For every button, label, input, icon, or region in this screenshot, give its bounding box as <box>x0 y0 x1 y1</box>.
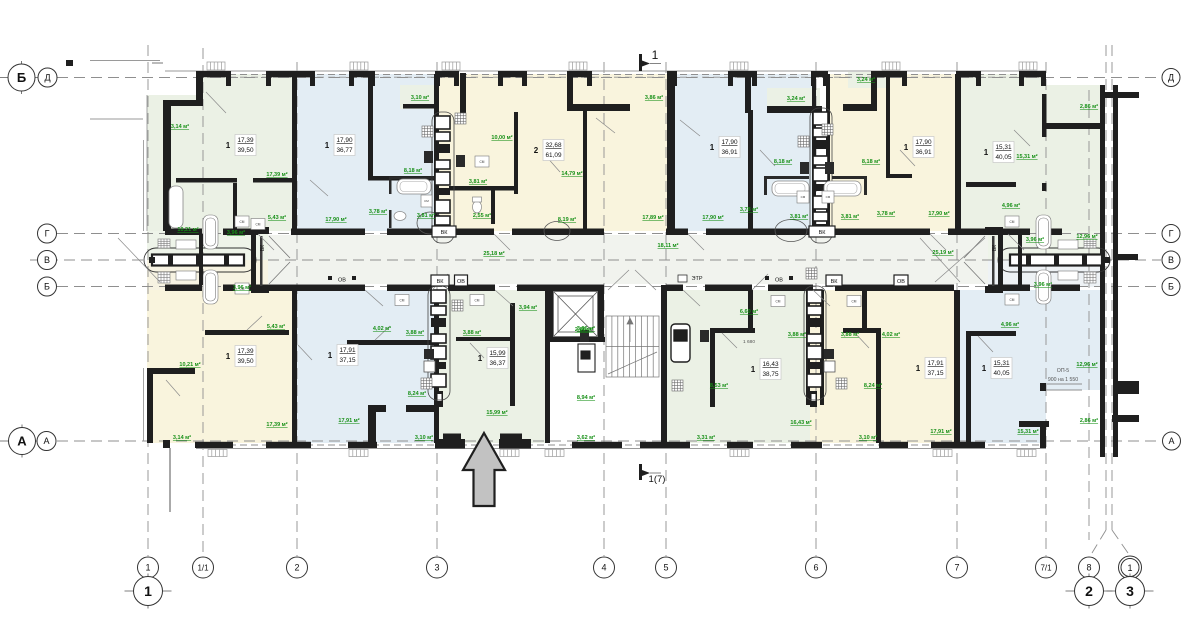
apartment B5 room fill (cream) <box>810 290 954 443</box>
svg-text:17,89 м²: 17,89 м² <box>642 214 663 221</box>
svg-text:40,05: 40,05 <box>994 370 1010 377</box>
svg-text:3,81 м²: 3,81 м² <box>417 212 435 219</box>
svg-text:В: В <box>1168 255 1174 265</box>
svg-text:8,18 м²: 8,18 м² <box>774 158 792 165</box>
svg-text:2: 2 <box>534 146 539 155</box>
svg-text:СМ: СМ <box>801 195 806 199</box>
green area labels <box>171 76 1098 441</box>
svg-text:ВК: ВК <box>260 245 266 251</box>
svg-text:3,88 м²: 3,88 м² <box>463 329 481 336</box>
svg-text:6: 6 <box>813 563 818 573</box>
section marker 1 (top) <box>639 48 661 71</box>
door swings <box>166 92 1030 396</box>
CM boxes A4/A5 <box>797 191 809 203</box>
axis circle 4 <box>594 557 615 578</box>
axis А bold bottom-left <box>0 425 45 458</box>
svg-text:1: 1 <box>710 143 715 152</box>
wall B1/B2 <box>292 290 297 443</box>
svg-text:37,15: 37,15 <box>340 357 356 364</box>
svg-text:Д: Д <box>44 73 50 83</box>
svg-text:ВК: ВК <box>441 230 449 236</box>
svg-text:17,90: 17,90 <box>722 139 738 146</box>
A3 kitchen corner wall <box>460 73 466 117</box>
annex flange low2 <box>1112 415 1139 422</box>
B3 inner bottom wall left <box>443 434 461 441</box>
B3 inner bottom wall right <box>500 434 522 441</box>
right core partition wall <box>1018 234 1022 285</box>
toilet A3 <box>473 201 482 213</box>
svg-text:3,78 м²: 3,78 м² <box>740 206 758 213</box>
bathtub A4 <box>772 181 809 196</box>
door oval corridor right <box>417 212 443 234</box>
svg-text:17,90 м²: 17,90 м² <box>325 216 346 223</box>
utility stack S3 <box>428 286 450 400</box>
svg-text:1: 1 <box>751 365 756 374</box>
A6 interior horizontal wall <box>966 182 1016 187</box>
bathtub A5 <box>824 181 861 196</box>
right core upper fill <box>988 231 1100 260</box>
washing machine B2 <box>424 349 434 359</box>
utility shaft wall bottom (axis 6) <box>806 290 810 405</box>
wall B5 interior vertical <box>876 330 881 443</box>
svg-text:16,43: 16,43 <box>763 361 779 368</box>
axis В right <box>1162 251 1180 269</box>
apartment B4 room fill (green) <box>667 290 810 443</box>
axis circle 7/1 <box>1036 557 1057 578</box>
apartment B1 label <box>226 346 256 367</box>
A3 bath wall vertical <box>491 186 495 224</box>
svg-text:17,39: 17,39 <box>238 348 254 355</box>
dark appliance blocks <box>424 151 433 163</box>
balcony 3,10 fill (green) <box>400 85 434 109</box>
svg-text:СМ: СМ <box>852 300 857 304</box>
apartment A2 room fill (blue) <box>292 74 434 231</box>
axis А left small <box>37 432 56 451</box>
svg-text:8,24 м²: 8,24 м² <box>864 382 882 389</box>
stove hatches <box>421 113 847 391</box>
annex flange top <box>1100 92 1139 98</box>
axis circle 1 <box>138 557 159 578</box>
utility shaft wall right (axis 6 top) <box>826 74 830 234</box>
svg-text:61,09: 61,09 <box>546 152 562 159</box>
svg-text:10,21 м²: 10,21 м² <box>177 226 198 233</box>
svg-text:СМ: СМ <box>475 299 480 303</box>
svg-text:10,21 м²: 10,21 м² <box>179 361 200 368</box>
svg-text:СМ: СМ <box>424 199 429 203</box>
svg-text:1: 1 <box>904 143 909 152</box>
svg-text:СМ: СМ <box>1010 298 1015 302</box>
wall V13 between A5 and A6 <box>955 74 961 234</box>
svg-text:15,31 м²: 15,31 м² <box>1017 428 1038 435</box>
svg-text:3,10 м²: 3,10 м² <box>411 94 429 101</box>
svg-text:ОП-5: ОП-5 <box>1057 368 1069 374</box>
apartment A3 room fill (cream) <box>434 74 674 231</box>
svg-text:3,62 м²: 3,62 м² <box>577 434 595 441</box>
svg-text:17,91 м²: 17,91 м² <box>338 417 359 424</box>
svg-text:ОВ: ОВ <box>457 279 465 285</box>
svg-text:6,60 м²: 6,60 м² <box>740 308 758 315</box>
door symbol B4 entry <box>810 391 817 407</box>
svg-text:1: 1 <box>328 351 333 360</box>
svg-text:36,77: 36,77 <box>337 147 353 154</box>
apartment B5 label <box>916 358 946 379</box>
apartment A2 label <box>325 135 355 156</box>
svg-text:4,02 м²: 4,02 м² <box>373 325 391 332</box>
svg-text:17,91 м²: 17,91 м² <box>930 428 951 435</box>
svg-text:СМ: СМ <box>1010 220 1015 224</box>
svg-text:1: 1 <box>144 583 152 599</box>
svg-text:39,50: 39,50 <box>238 147 254 154</box>
svg-text:3,81 м²: 3,81 м² <box>790 213 808 220</box>
apartment B3 label <box>478 348 508 369</box>
svg-text:10,00 м²: 10,00 м² <box>491 134 512 141</box>
svg-text:1: 1 <box>145 563 150 573</box>
corridor right end door swings <box>920 238 960 282</box>
bath walls A4/A5 <box>764 176 809 179</box>
stair hall door swings <box>608 270 629 290</box>
B4 bath wall <box>748 290 753 333</box>
svg-text:3,88 м²: 3,88 м² <box>788 331 806 338</box>
svg-text:ВК: ВК <box>437 279 445 285</box>
svg-text:2,55 м²: 2,55 м² <box>473 212 491 219</box>
bold axis circle 1 bottom <box>125 574 172 609</box>
wall B5/B6 <box>954 290 960 443</box>
wall B1 left L horizontal <box>147 368 195 374</box>
svg-text:1: 1 <box>226 352 231 361</box>
svg-text:3,10 м²: 3,10 м² <box>415 434 433 441</box>
utility stack S1 <box>432 112 454 243</box>
svg-text:3,88 м²: 3,88 м² <box>841 331 859 338</box>
svg-text:1 680: 1 680 <box>743 339 755 345</box>
apartment A4 label <box>710 137 740 158</box>
corridor bottom wall <box>165 285 1080 292</box>
axis dashed lines <box>30 45 1162 556</box>
apartment A6 room fill (green) <box>955 74 1046 231</box>
svg-text:Д: Д <box>1168 73 1174 83</box>
svg-text:1: 1 <box>478 354 483 363</box>
axis circle 2 <box>287 557 308 578</box>
apartment A5 room fill (cream) <box>828 74 955 231</box>
annex flange mid <box>1118 254 1138 260</box>
A1 bath wall <box>233 183 237 231</box>
door oval corridor <box>544 222 570 241</box>
svg-text:17,39 м²: 17,39 м² <box>266 421 287 428</box>
door oval near VK left <box>775 220 807 242</box>
svg-text:12,96 м²: 12,96 м² <box>1076 233 1097 240</box>
apartment B3 room fill (green) <box>434 290 545 443</box>
svg-text:15,31: 15,31 <box>994 360 1010 367</box>
svg-text:ОВ: ОВ <box>775 278 783 284</box>
svg-text:СМ: СМ <box>240 220 245 224</box>
bold axis circle 3 bottom <box>1107 574 1154 609</box>
svg-text:17,39: 17,39 <box>238 137 254 144</box>
wall B6 interior vertical <box>966 333 971 443</box>
svg-text:3,88 м²: 3,88 м² <box>406 329 424 336</box>
svg-text:А: А <box>43 436 49 446</box>
svg-text:2,86 м²: 2,86 м² <box>1080 103 1098 110</box>
CM boxes left <box>235 216 249 294</box>
facade thin lines <box>90 61 1046 449</box>
apartment B1 room fill (cream) <box>147 290 292 443</box>
svg-text:3,31 м²: 3,31 м² <box>697 434 715 441</box>
svg-text:1: 1 <box>325 141 330 150</box>
wall B6 bottom-right step <box>1019 421 1049 427</box>
wall right of balcony 2,86 <box>1042 94 1047 137</box>
svg-text:7: 7 <box>954 563 959 573</box>
corridor CM boxes <box>395 295 409 306</box>
svg-text:7/1: 7/1 <box>1040 563 1052 572</box>
svg-text:16,43 м²: 16,43 м² <box>790 419 811 426</box>
left vestibule door swings <box>269 236 290 258</box>
svg-text:1: 1 <box>1127 563 1132 573</box>
annex flange low1 <box>1118 381 1139 394</box>
svg-text:Б: Б <box>17 70 26 85</box>
axis А right <box>1163 432 1181 450</box>
axis circle 3 <box>427 557 448 578</box>
wall A4 bath <box>748 110 753 234</box>
svg-text:3,78 м²: 3,78 м² <box>369 208 387 215</box>
porch wall right of arrow <box>499 439 531 449</box>
apartment B2 label <box>328 345 358 366</box>
svg-text:5: 5 <box>663 563 668 573</box>
facade window dashes <box>196 75 1046 446</box>
svg-text:ОВ: ОВ <box>897 279 905 285</box>
right wing loggia wall <box>1046 123 1100 129</box>
apartment A3 label <box>534 140 564 161</box>
svg-text:Б: Б <box>1168 282 1174 292</box>
wall B4 interior horizontal <box>710 328 755 333</box>
svg-text:1: 1 <box>226 141 231 150</box>
axis Б bold top-left <box>0 61 44 94</box>
svg-text:3,96 м²: 3,96 м² <box>233 284 251 291</box>
svg-text:900 на 1 550: 900 на 1 550 <box>1048 377 1078 383</box>
apartment B6 room fill (blue) <box>954 290 1100 443</box>
svg-text:ОВ: ОВ <box>338 278 346 284</box>
svg-text:17,90 м²: 17,90 м² <box>928 210 949 217</box>
svg-text:Г: Г <box>45 229 50 239</box>
svg-text:37,15: 37,15 <box>928 370 944 377</box>
svg-text:15,99 м²: 15,99 м² <box>486 409 507 416</box>
right vestibule door swings <box>964 236 985 258</box>
sink A2 <box>394 212 406 221</box>
right core fixtures <box>1036 215 1096 304</box>
svg-text:17,90: 17,90 <box>916 139 932 146</box>
axis Б right <box>1162 278 1180 296</box>
svg-text:ВК: ВК <box>831 279 839 285</box>
svg-text:4,96 м²: 4,96 м² <box>1002 202 1020 209</box>
svg-text:8,94 м²: 8,94 м² <box>577 394 595 401</box>
svg-text:1: 1 <box>982 364 987 373</box>
svg-text:3,14 м²: 3,14 м² <box>173 434 191 441</box>
svg-text:3,96 м²: 3,96 м² <box>1026 236 1044 243</box>
wall B6 interior horizontal <box>966 331 1016 336</box>
svg-text:2,86 м²: 2,86 м² <box>575 326 593 333</box>
wall B2 interior <box>347 340 434 345</box>
svg-text:17,91: 17,91 <box>928 360 944 367</box>
annex wall right <box>1113 85 1118 457</box>
kitchen unit near stairs left <box>578 344 595 372</box>
left core capsule <box>144 248 256 272</box>
svg-text:Г: Г <box>1169 229 1174 239</box>
svg-text:1: 1 <box>984 148 989 157</box>
svg-text:38,75: 38,75 <box>763 371 779 378</box>
axis circle 5 <box>656 557 677 578</box>
svg-text:А: А <box>17 434 27 449</box>
corner wall A4 right <box>745 71 751 113</box>
axis Д left <box>38 68 57 87</box>
apartment A1 label <box>226 135 256 156</box>
svg-text:ЭТР: ЭТР <box>692 276 703 282</box>
left exterior wall <box>163 100 171 231</box>
svg-text:18,11 м²: 18,11 м² <box>658 242 679 249</box>
svg-text:3,96 м²: 3,96 м² <box>227 229 245 236</box>
left core partition wall <box>199 234 203 285</box>
wall V8 between A3 and A4 <box>667 71 675 234</box>
apartment A6 label <box>984 142 1014 163</box>
svg-text:3,14 м²: 3,14 м² <box>171 123 189 130</box>
svg-text:17,90: 17,90 <box>337 137 353 144</box>
loggia bottom wall A3 <box>567 104 630 111</box>
axis Б left <box>38 277 57 296</box>
elevator shaft <box>554 292 598 337</box>
B5 bath wall <box>862 290 867 333</box>
wall B1 left L vertical <box>147 368 153 443</box>
svg-text:СМ: СМ <box>400 299 405 303</box>
A3 bath wall horizontal <box>449 186 514 191</box>
svg-text:В: В <box>44 255 50 265</box>
wall B4 interior vertical <box>710 330 715 407</box>
apartment A5 label <box>904 137 934 158</box>
svg-text:2: 2 <box>294 563 299 573</box>
svg-text:12,96 м²: 12,96 м² <box>1076 361 1097 368</box>
stairs <box>606 316 659 377</box>
axis Д right <box>1162 69 1180 87</box>
svg-text:3,96 м²: 3,96 м² <box>1034 281 1052 288</box>
wall V4 between A2 and A3 <box>434 74 439 234</box>
svg-text:СМ: СМ <box>826 195 831 199</box>
svg-text:3: 3 <box>1126 583 1134 599</box>
wall B2/B3 <box>434 290 439 443</box>
corner wall A5 <box>871 71 877 111</box>
apartment A4 room fill (blue) <box>674 74 812 231</box>
left core fixtures <box>158 215 218 304</box>
balcony 3,10 bottom wall <box>403 104 435 109</box>
annex wall left <box>1100 85 1105 457</box>
door symbol B3 entry <box>436 391 443 407</box>
stairwell left wall <box>545 285 550 443</box>
svg-text:3,24 м²: 3,24 м² <box>857 76 875 83</box>
stairwell right wall <box>661 285 667 443</box>
misc small marks <box>66 60 73 66</box>
A5 interior horizontal wall <box>886 174 912 178</box>
svg-text:8: 8 <box>1086 563 1091 573</box>
corner wall A3 loggia <box>567 71 573 111</box>
kitchen unit right of stairs <box>671 324 690 362</box>
svg-text:15,31 м²: 15,31 м² <box>1016 153 1037 160</box>
axis circle 1/1 <box>193 557 214 578</box>
top-left corner wall <box>196 71 203 106</box>
svg-text:3,10 м²: 3,10 м² <box>859 434 877 441</box>
loggia wall A5 <box>843 104 872 111</box>
apartment B2 room fill (blue) <box>292 290 434 443</box>
CM boxes right <box>1005 216 1019 305</box>
svg-text:14,79 м²: 14,79 м² <box>561 170 582 177</box>
svg-text:2,86 м²: 2,86 м² <box>1080 417 1098 424</box>
wall V14 right of A6 <box>1042 183 1047 191</box>
svg-text:8,18 м²: 8,18 м² <box>404 167 422 174</box>
svg-text:3,78 м²: 3,78 м² <box>877 210 895 217</box>
svg-text:3,24 м²: 3,24 м² <box>787 95 805 102</box>
loggia bottom wall A4 <box>767 106 822 113</box>
wall stub left of OP-5 window <box>1040 383 1046 391</box>
balcony 3,24b fill (green) <box>848 72 886 88</box>
svg-text:1/1: 1/1 <box>197 563 209 572</box>
bold axis circle 2 bottom <box>1066 574 1113 609</box>
svg-text:СМ: СМ <box>256 223 261 227</box>
svg-text:4: 4 <box>601 563 606 573</box>
CM box A3 <box>475 156 489 167</box>
svg-text:8,19 м²: 8,19 м² <box>558 216 576 223</box>
B2 loggia wall vertical <box>368 405 376 448</box>
svg-text:8,53 м²: 8,53 м² <box>710 382 728 389</box>
right core capsule <box>998 248 1110 272</box>
svg-text:39,50: 39,50 <box>238 358 254 365</box>
left core lower fill <box>147 260 268 290</box>
axis circle 7 <box>947 557 968 578</box>
window sill boxes above top wall <box>207 62 1037 70</box>
wall V2 between A1 and A2 <box>292 74 297 234</box>
section marker 1(7) (bottom) <box>639 464 665 485</box>
axis circle 6 <box>806 557 827 578</box>
svg-text:СМ: СМ <box>776 300 781 304</box>
wall inside A3 (kitchen) <box>514 112 518 194</box>
svg-text:17,91: 17,91 <box>340 347 356 354</box>
svg-text:17,39 м²: 17,39 м² <box>266 171 287 178</box>
corridor top wall <box>165 229 1062 236</box>
utility stack S4 <box>804 286 826 400</box>
utility stack S2 <box>810 108 832 243</box>
svg-text:А: А <box>1168 436 1174 446</box>
service labels <box>432 226 456 237</box>
svg-text:8,24 м²: 8,24 м² <box>408 390 426 397</box>
apartment B6 label <box>982 358 1012 379</box>
wall B3 interior horizontal <box>456 337 510 341</box>
loggia wall A1 <box>165 100 203 106</box>
svg-text:3,81 м²: 3,81 м² <box>469 178 487 185</box>
CM box A2 <box>421 195 432 207</box>
right core lower fill <box>988 260 1100 287</box>
svg-text:4,02 м²: 4,02 м² <box>882 331 900 338</box>
B2 loggia wall top-right <box>406 405 436 412</box>
window sill boxes below bottom wall <box>208 450 1036 457</box>
wall inside A3 right <box>583 111 587 234</box>
svg-text:4,96 м²: 4,96 м² <box>1001 321 1019 328</box>
svg-text:1: 1 <box>652 48 659 62</box>
svg-text:5,43 м²: 5,43 м² <box>268 214 286 221</box>
left vestibule walls <box>251 227 269 293</box>
svg-text:17,90 м²: 17,90 м² <box>702 214 723 221</box>
svg-text:3: 3 <box>434 563 439 573</box>
A2 bath walls <box>389 177 434 180</box>
axis В left <box>38 251 57 270</box>
elevator shaft walls <box>548 288 553 341</box>
wall B3 interior vertical <box>510 303 515 406</box>
svg-text:1(7): 1(7) <box>649 474 666 485</box>
svg-text:ВК: ВК <box>992 245 998 251</box>
svg-text:СМ: СМ <box>480 160 485 164</box>
svg-text:3,86 м²: 3,86 м² <box>645 94 663 101</box>
bathtub A2 <box>397 179 431 194</box>
